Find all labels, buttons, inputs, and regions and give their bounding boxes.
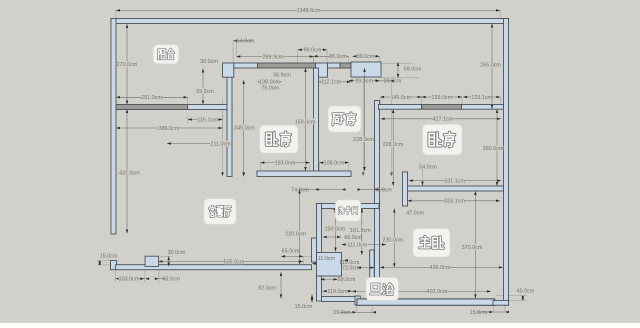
svg-text:30.0cm: 30.0cm bbox=[200, 59, 218, 65]
svg-text:45.0cm: 45.0cm bbox=[517, 289, 535, 295]
svg-text:59.0cm: 59.0cm bbox=[338, 277, 356, 283]
svg-text:82.0cm: 82.0cm bbox=[258, 285, 276, 291]
svg-text:39.0cm: 39.0cm bbox=[333, 310, 351, 316]
svg-text:370.0cm: 370.0cm bbox=[462, 245, 483, 251]
svg-text:99.0cm: 99.0cm bbox=[357, 54, 375, 60]
svg-text:230.0cm: 230.0cm bbox=[382, 238, 403, 244]
svg-text:432.0cm: 432.0cm bbox=[119, 170, 140, 176]
svg-text:251.0cm: 251.0cm bbox=[141, 95, 162, 101]
svg-text:269.9cm: 269.9cm bbox=[262, 54, 283, 60]
svg-text:99.0cm: 99.0cm bbox=[304, 48, 322, 54]
svg-text:65.0cm: 65.0cm bbox=[282, 248, 300, 254]
svg-text:75.0cm: 75.0cm bbox=[261, 85, 279, 91]
svg-text:228.0cm: 228.0cm bbox=[383, 142, 404, 148]
svg-text:403.0cm: 403.0cm bbox=[427, 289, 448, 295]
svg-text:159.0cm: 159.0cm bbox=[295, 119, 316, 125]
svg-text:48.0cm: 48.0cm bbox=[162, 277, 180, 283]
svg-text:29.0cm: 29.0cm bbox=[384, 79, 402, 85]
svg-text:119.0cm: 119.0cm bbox=[327, 289, 348, 295]
svg-text:1348.6cm: 1348.6cm bbox=[297, 8, 321, 14]
svg-text:11.0cm: 11.0cm bbox=[318, 256, 336, 262]
svg-text:54.0cm: 54.0cm bbox=[419, 164, 437, 170]
svg-text:436.0cm: 436.0cm bbox=[430, 265, 451, 271]
svg-text:386.0cm: 386.0cm bbox=[159, 126, 180, 132]
svg-text:139.0cm: 139.0cm bbox=[431, 95, 452, 101]
svg-text:228.0cm: 228.0cm bbox=[353, 137, 374, 143]
svg-text:14.0cm: 14.0cm bbox=[237, 39, 255, 45]
svg-text:260.0cm: 260.0cm bbox=[483, 146, 504, 152]
svg-text:211.0cm: 211.0cm bbox=[210, 141, 231, 147]
svg-text:86.0cm: 86.0cm bbox=[329, 54, 347, 60]
svg-text:47.0cm: 47.0cm bbox=[406, 211, 424, 217]
svg-text:112.1cm: 112.1cm bbox=[321, 80, 342, 86]
svg-text:15.0cm: 15.0cm bbox=[470, 310, 488, 316]
svg-text:111.0cm: 111.0cm bbox=[347, 242, 367, 248]
svg-text:145.0cm: 145.0cm bbox=[390, 95, 411, 101]
svg-text:427.1cm: 427.1cm bbox=[433, 117, 454, 123]
svg-text:150.0cm: 150.0cm bbox=[325, 226, 346, 232]
svg-text:30.0cm: 30.0cm bbox=[168, 250, 186, 256]
svg-text:331.1cm: 331.1cm bbox=[444, 178, 465, 184]
svg-text:45.0cm: 45.0cm bbox=[374, 187, 392, 193]
svg-text:69.0cm: 69.0cm bbox=[404, 67, 422, 73]
svg-text:193.0cm: 193.0cm bbox=[275, 160, 296, 166]
svg-text:333.1cm: 333.1cm bbox=[444, 199, 465, 205]
svg-text:270.0cm: 270.0cm bbox=[117, 62, 138, 68]
svg-text:115.1cm: 115.1cm bbox=[197, 117, 218, 123]
svg-text:161.8cm: 161.8cm bbox=[350, 228, 371, 234]
svg-text:103.0cm: 103.0cm bbox=[119, 277, 140, 283]
svg-text:93.0cm: 93.0cm bbox=[196, 89, 214, 95]
svg-text:15.0cm: 15.0cm bbox=[100, 254, 118, 260]
svg-text:72.0cm: 72.0cm bbox=[342, 265, 360, 271]
svg-text:133.1cm: 133.1cm bbox=[471, 95, 492, 101]
svg-text:15.0cm: 15.0cm bbox=[295, 304, 313, 310]
svg-text:265.0cm: 265.0cm bbox=[480, 63, 501, 69]
svg-text:345.0cm: 345.0cm bbox=[234, 125, 255, 131]
svg-text:36.9cm: 36.9cm bbox=[273, 72, 291, 78]
svg-text:220.0cm: 220.0cm bbox=[285, 231, 306, 237]
svg-text:108.0cm: 108.0cm bbox=[324, 160, 345, 166]
svg-text:505.0cm: 505.0cm bbox=[224, 259, 245, 265]
svg-text:66.0cm: 66.0cm bbox=[344, 235, 362, 241]
